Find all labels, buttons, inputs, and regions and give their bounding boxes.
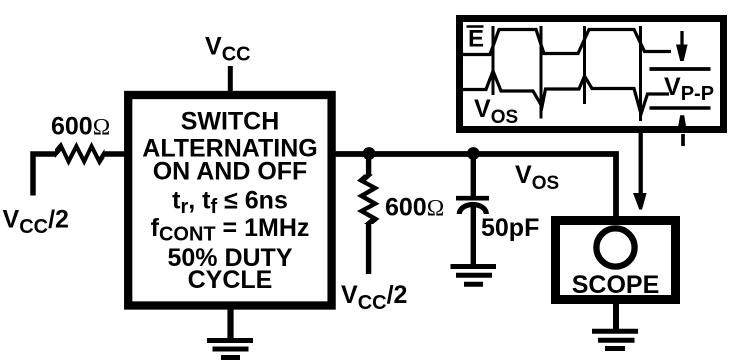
ground under scope [592, 300, 638, 349]
VP-P lower line [650, 106, 711, 109]
transition marker line 4 [639, 26, 642, 121]
wire VCC to switch box [228, 66, 233, 95]
wire VCC/2 to R1 [33, 154, 56, 196]
transition marker line 1 [492, 26, 495, 95]
svg-text:SCOPE: SCOPE [572, 271, 660, 299]
ground under C1 [451, 267, 497, 285]
inset waveform box [460, 19, 724, 130]
svg-text:50pF: 50pF [481, 214, 539, 242]
transition marker line 3 [583, 26, 586, 104]
scope box [556, 221, 676, 300]
arrow from inset to scope [633, 131, 647, 210]
scope screen circle [596, 228, 634, 266]
svg-text:600Ω: 600Ω [51, 113, 110, 141]
svg-text:ON AND OFF: ON AND OFF [153, 158, 308, 186]
ground under switch box [207, 306, 253, 358]
junction node A [363, 147, 376, 160]
VP-P annotation arrow up [677, 115, 687, 146]
resistor R2 600ohm (vertical) [357, 154, 380, 274]
VP-P annotation arrow down [676, 31, 688, 61]
svg-text:CYCLE: CYCLE [188, 266, 273, 294]
waveform trace E (top) [462, 30, 671, 55]
wire switch box to scope (output) [330, 154, 616, 221]
svg-text:SWITCH: SWITCH [181, 108, 280, 136]
resistor R1 600ohm (horizontal) [55, 142, 105, 166]
waveform trace VOS (bottom) [462, 71, 669, 114]
svg-text:E: E [468, 26, 484, 53]
junction node B [467, 147, 480, 160]
switch box U1 [128, 95, 331, 306]
transition marker line 2 [540, 26, 543, 119]
VP-P upper line [650, 67, 711, 71]
capacitor C1 50pF [456, 154, 489, 264]
wire R1 to switch box [103, 151, 128, 157]
svg-text:600Ω: 600Ω [385, 194, 444, 222]
